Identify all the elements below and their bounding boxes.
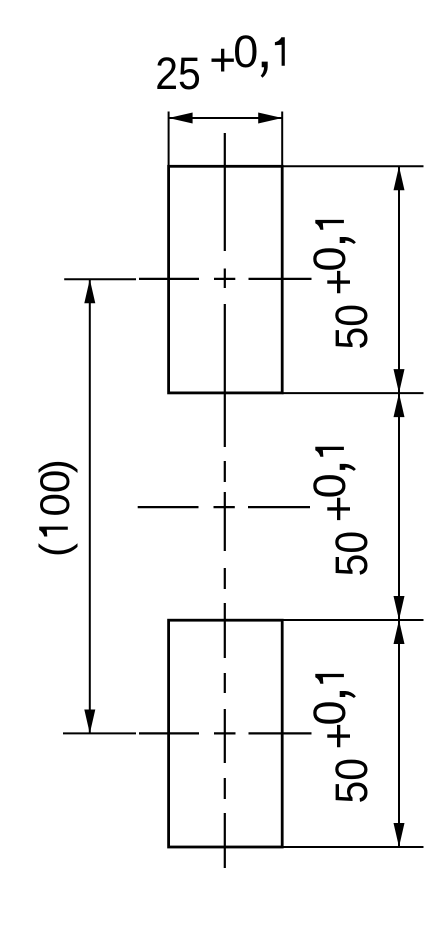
arrowhead down at y=846.8 [394,823,405,847]
dimension 25 label [155,49,201,99]
extension line right bottom [282,846,423,848]
dimension 25 tolerance label +0,1 [209,26,285,86]
svg-text:): ) [31,459,78,473]
svg-text:00: 00 [31,470,78,517]
arrowhead up at y=619.8 [394,620,405,644]
extension line right top [282,165,423,167]
svg-text:(: ( [31,543,78,557]
arrowhead down at y=393 [394,369,405,393]
dimension 100: extension line bottom [63,732,136,734]
top rectangle (slot 1 outline) [169,166,283,393]
bottom rectangle (slot 2 outline) [169,620,283,847]
dimension (100) label [31,459,78,557]
dimension 100: top arrowhead [84,279,95,303]
svg-text:25: 25 [155,49,201,99]
dimension 50 label #2 [304,447,377,577]
horizontal center line of top rectangle [139,278,312,280]
extension line right at 393 [282,392,423,394]
arrowhead up at y=166 [394,166,405,190]
dimension 25: right arrowhead [258,113,282,124]
dimension 50 (right) dimension line [398,166,400,847]
arrowhead down at y=619.5 [394,596,405,620]
arrowhead up at y=393 [394,393,405,417]
dimension 100: dimension line [89,279,91,733]
dimension 100: extension line top [64,278,136,280]
dimension 25: left arrowhead [169,113,193,124]
dimension 50 label #3 [304,674,377,804]
extension line right at 620 [282,619,423,621]
dimension 50 label #1 [304,220,377,350]
horizontal center line at middle position [138,506,310,508]
dimension 25: extension line right [281,112,283,167]
horizontal center line of bottom rectangle [139,732,312,734]
vertical center line [224,133,226,868]
dimension 25: dimension line [169,117,283,119]
dimension 25: extension line left [168,112,170,167]
dimension 100: bottom arrowhead [84,710,95,734]
